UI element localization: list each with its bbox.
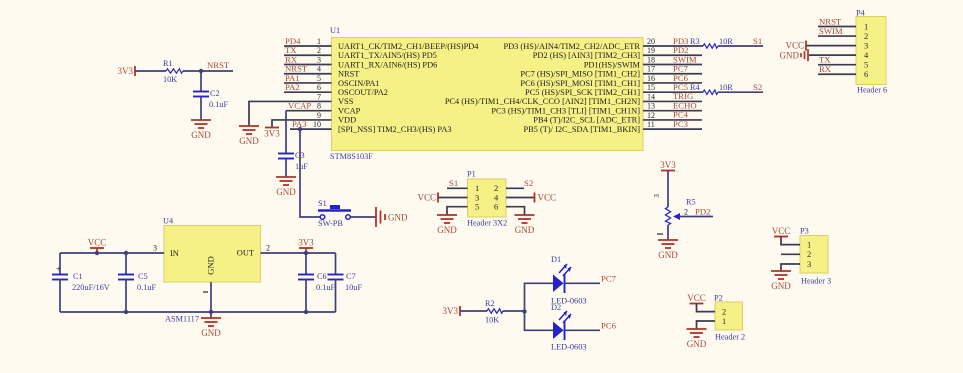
U1 pin 20	[503, 36, 703, 51]
svg-text:3V3: 3V3	[443, 306, 459, 316]
svg-text:Header 2: Header 2	[715, 333, 745, 342]
svg-text:R5: R5	[686, 198, 696, 207]
LED D2	[551, 303, 587, 352]
svg-text:VSS: VSS	[338, 97, 354, 106]
svg-text:PC6 (HS)/SPI_MOSI [TIM1_CH1]: PC6 (HS)/SPI_MOSI [TIM1_CH1]	[520, 79, 640, 88]
wire C5 branch	[125, 253, 127, 275]
svg-text:18: 18	[647, 55, 655, 64]
svg-text:3: 3	[652, 194, 661, 198]
svg-text:D2: D2	[551, 303, 561, 312]
wire S1 to P1 pin1	[447, 187, 468, 189]
wire R4 to S2	[718, 91, 763, 93]
wire S1 to ground	[351, 216, 377, 218]
svg-text:3V3: 3V3	[660, 160, 676, 170]
svg-text:6: 6	[864, 69, 868, 79]
svg-text:5: 5	[475, 202, 479, 212]
wire C7 to bottom rail	[335, 280, 337, 313]
svg-text:C5: C5	[138, 272, 148, 281]
svg-text:OSCOUT/PA2: OSCOUT/PA2	[338, 88, 388, 97]
wire VCC to P2 pin2	[697, 304, 716, 312]
svg-text:VCC: VCC	[785, 41, 804, 51]
C5 plates	[118, 275, 134, 280]
U1 pin 9	[317, 111, 356, 125]
resistor R2	[485, 299, 503, 325]
svg-text:16: 16	[647, 74, 655, 83]
ground (C3)	[276, 177, 296, 197]
connector P3 (Header 3)	[800, 227, 831, 286]
U4 pin 1 number	[203, 291, 208, 293]
node PA3 junction	[298, 127, 302, 131]
svg-text:GND: GND	[201, 328, 221, 338]
wire D1 to PC7	[565, 282, 601, 284]
wire P1 pin5 to ground	[447, 207, 468, 215]
svg-text:PD2: PD2	[695, 207, 710, 217]
U4 pin labels	[153, 244, 270, 275]
U1 pin 6	[284, 82, 388, 97]
svg-text:12: 12	[647, 111, 655, 120]
U1 pin 17	[520, 64, 702, 79]
ground (S1 switch)	[376, 207, 408, 227]
svg-text:10uF: 10uF	[345, 283, 362, 292]
power port 3V3 (R5)	[661, 170, 675, 172]
svg-text:ASM1117: ASM1117	[165, 315, 199, 324]
svg-text:P3: P3	[800, 227, 809, 236]
ground (P1 pin6)	[515, 215, 535, 235]
svg-text:3: 3	[807, 259, 811, 269]
wire 3V3 lead	[305, 248, 307, 253]
svg-text:5: 5	[317, 74, 321, 83]
svg-text:R4: R4	[690, 83, 701, 92]
svg-text:PC3: PC3	[673, 119, 688, 129]
power port VCC (P3)	[772, 226, 791, 237]
wire VCC to P3 pin1	[781, 237, 800, 245]
svg-text:PC7: PC7	[601, 274, 617, 284]
IC U1 (STM8S103F MCU)	[330, 26, 643, 161]
wire C7 branch	[335, 253, 337, 275]
svg-text:U4: U4	[163, 217, 174, 226]
ground (U4)	[201, 318, 221, 338]
wire RX to P4 pin6	[818, 73, 856, 75]
svg-text:5: 5	[864, 60, 868, 70]
svg-text:UART1_RX/AIN6/(HS) PD6: UART1_RX/AIN6/(HS) PD6	[338, 60, 437, 69]
capacitor C7	[328, 272, 363, 292]
svg-text:STM8S103F: STM8S103F	[330, 152, 373, 161]
svg-text:S1: S1	[753, 36, 762, 46]
C6 plates	[298, 275, 314, 280]
svg-text:0.1uF: 0.1uF	[137, 283, 157, 292]
power port VCC (P4 pin3)	[785, 41, 806, 51]
U1 pin 10	[290, 119, 452, 134]
svg-text:D1: D1	[551, 255, 561, 264]
svg-text:PC3 (HS)/TIM1_CH3 [TLI] [TIM1_: PC3 (HS)/TIM1_CH3 [TLI] [TIM1_CH1N]	[491, 106, 640, 115]
wire P1 pin4 to VCC	[506, 197, 535, 199]
U1 pin 18	[584, 54, 702, 69]
svg-text:PA2: PA2	[285, 82, 300, 92]
svg-text:20: 20	[647, 37, 655, 46]
svg-text:3V3: 3V3	[298, 238, 314, 248]
LED D1	[551, 255, 587, 306]
svg-text:2: 2	[684, 208, 688, 217]
wire input rail	[60, 252, 164, 254]
svg-text:GND: GND	[658, 250, 678, 260]
svg-text:8: 8	[317, 102, 321, 111]
capacitor C2	[193, 89, 229, 109]
power port 3V3 (U4 output)	[298, 238, 314, 249]
svg-text:11: 11	[647, 120, 655, 129]
svg-text:PB5 (T)/ I2C_SDA [TIM1_BKIN]: PB5 (T)/ I2C_SDA [TIM1_BKIN]	[523, 125, 640, 134]
svg-text:PD2 (HS) [AIN3] [TIM2_CH3]: PD2 (HS) [AIN3] [TIM2_CH3]	[533, 51, 640, 60]
svg-text:PD3 (HS)/AIN4/TIM2_CH2/ADC_ETR: PD3 (HS)/AIN4/TIM2_CH2/ADC_ETR	[503, 42, 640, 51]
svg-text:4: 4	[317, 65, 321, 74]
svg-text:NRST: NRST	[338, 70, 359, 79]
svg-text:NRST: NRST	[819, 16, 842, 26]
svg-text:PC6: PC6	[601, 321, 617, 331]
svg-text:6: 6	[317, 83, 321, 92]
wire P1 pin2 to S2	[506, 187, 524, 189]
svg-text:3V3: 3V3	[264, 129, 280, 139]
svg-text:UART1_CK/TIM2_CH1/BEEP/(HS)PD4: UART1_CK/TIM2_CH1/BEEP/(HS)PD4	[338, 42, 479, 51]
svg-text:RX: RX	[819, 64, 832, 74]
wire 3V3 to R5	[667, 171, 669, 208]
ground (P4 pin4)	[780, 49, 809, 61]
resistor R4	[690, 83, 733, 94]
wire U4 GND pin	[210, 282, 212, 318]
wire R2 to LED junction	[503, 310, 525, 312]
wire P3 pin2 stub	[781, 253, 800, 255]
power port 3V3 (R2)	[443, 306, 461, 316]
C3 plates	[278, 154, 294, 159]
U1 pin 1	[284, 36, 479, 51]
wire PA3 to switch S1	[300, 129, 320, 217]
svg-text:R3: R3	[690, 37, 700, 46]
svg-text:S2: S2	[524, 178, 533, 188]
svg-text:GND: GND	[276, 187, 296, 197]
svg-text:PC4 (HS)/TIM1_CH4/CLK_CCO [AIN: PC4 (HS)/TIM1_CH4/CLK_CCO [AIN2] [TIM1_C…	[445, 97, 640, 106]
ground (R5)	[658, 240, 678, 260]
svg-text:GND: GND	[206, 256, 216, 275]
svg-text:19: 19	[647, 46, 655, 55]
U1 pin 16	[520, 73, 702, 88]
capacitor C1	[52, 265, 110, 293]
svg-text:VCC: VCC	[538, 193, 557, 203]
svg-text:9: 9	[317, 111, 321, 120]
svg-text:GND: GND	[191, 130, 211, 140]
C2 plates	[193, 92, 209, 97]
ground (P3)	[771, 271, 791, 291]
svg-text:17: 17	[647, 65, 655, 74]
wire 3V3 to R2	[460, 310, 487, 312]
resistor R3	[690, 37, 733, 48]
svg-text:VCC: VCC	[88, 238, 107, 248]
wire junction to D2	[525, 312, 554, 331]
U1 pin 2	[284, 45, 437, 60]
power port VCC (P2)	[687, 293, 706, 304]
svg-text:1: 1	[722, 316, 726, 326]
wire P1 pin6 to ground	[506, 207, 525, 215]
C1 plates	[52, 275, 68, 280]
svg-text:R2: R2	[485, 299, 495, 308]
capacitor C3	[278, 151, 308, 171]
wire C5 to bottom rail	[125, 280, 127, 313]
svg-text:GND: GND	[515, 225, 535, 235]
svg-text:OSCIN/PA1: OSCIN/PA1	[338, 79, 380, 88]
svg-text:VCAP: VCAP	[338, 106, 361, 115]
ground (P1 pin5)	[437, 215, 457, 235]
svg-text:NRST: NRST	[207, 60, 230, 70]
node GND junction	[209, 310, 213, 314]
connector P2 (Header 2)	[714, 294, 745, 342]
svg-text:LED-0603: LED-0603	[551, 343, 587, 352]
wire 3V3 to R1	[135, 70, 166, 72]
U1 pin 7	[317, 92, 354, 106]
resistor R1	[163, 59, 183, 84]
svg-text:IN: IN	[170, 249, 179, 258]
wire C2 to ground	[200, 97, 202, 121]
R5 pin 1 number	[657, 233, 663, 235]
svg-text:Header 6: Header 6	[857, 86, 887, 95]
svg-text:10K: 10K	[163, 75, 177, 84]
svg-text:[SPI_NSS] TIM2_CH3/(HS) PA3: [SPI_NSS] TIM2_CH3/(HS) PA3	[338, 125, 452, 134]
svg-text:2: 2	[266, 244, 270, 253]
svg-text:C2: C2	[210, 89, 220, 98]
wire bottom rail	[60, 311, 336, 313]
svg-text:SWIM: SWIM	[819, 26, 843, 36]
svg-text:TX: TX	[819, 55, 831, 65]
wire junction to D1	[525, 283, 554, 311]
svg-text:GND: GND	[780, 51, 800, 61]
wire P3 pin3 to ground	[781, 264, 800, 271]
wire pin7 VSS to ground	[249, 101, 332, 126]
capacitor C6	[298, 272, 336, 292]
svg-text:VCC: VCC	[417, 193, 436, 203]
svg-text:PB4 (T)/I2C_SCL [ADC_ETR]: PB4 (T)/I2C_SCL [ADC_ETR]	[533, 116, 640, 125]
wire C1 branch	[59, 253, 61, 275]
U1 pin 4	[284, 64, 359, 79]
svg-text:3: 3	[153, 244, 157, 253]
svg-text:P1: P1	[467, 170, 476, 179]
wire C1 to bottom rail	[59, 280, 61, 313]
svg-text:10R: 10R	[719, 83, 733, 92]
svg-text:10K: 10K	[485, 316, 499, 325]
svg-text:R1: R1	[163, 59, 173, 68]
svg-text:C7: C7	[346, 272, 356, 281]
connector P4 (Header 6)	[856, 9, 887, 95]
wire SWIM to P4 pin2	[818, 35, 856, 37]
svg-text:1: 1	[807, 239, 811, 249]
wire D2 to PC6	[565, 329, 601, 331]
svg-text:C6: C6	[317, 272, 327, 281]
svg-text:S1: S1	[318, 199, 327, 208]
svg-text:1: 1	[864, 21, 868, 31]
svg-text:14: 14	[647, 92, 655, 101]
U1 pin 13	[491, 100, 702, 115]
wire R3 to S1	[718, 45, 763, 47]
svg-text:S2: S2	[753, 82, 762, 92]
svg-text:GND: GND	[687, 339, 707, 349]
power port VCC (P1 pin4)	[535, 193, 557, 203]
svg-text:1: 1	[317, 37, 321, 46]
svg-text:10: 10	[313, 120, 321, 129]
svg-text:Header 3X2: Header 3X2	[467, 219, 507, 228]
C7 plates	[328, 275, 344, 280]
svg-text:3: 3	[864, 40, 868, 50]
svg-text:3V3: 3V3	[118, 66, 134, 76]
node 3V3 junction	[304, 251, 308, 255]
U1 pin 14	[445, 91, 702, 106]
P1 pins 3/4	[475, 192, 499, 202]
U1 pin 5	[284, 73, 380, 88]
svg-text:Header 3: Header 3	[801, 277, 831, 286]
svg-text:GND: GND	[388, 213, 408, 223]
U1 pin 15	[525, 82, 703, 97]
svg-text:OUT: OUT	[237, 249, 254, 258]
svg-text:0.1uF: 0.1uF	[209, 100, 229, 109]
connector P1 (Header 3X2)	[467, 170, 507, 228]
wire C3 to ground	[285, 159, 287, 178]
svg-text:13: 13	[647, 102, 655, 111]
svg-text:U1: U1	[330, 26, 340, 35]
svg-text:PC7 (HS)/SPI_MISO [TIM1_CH2]: PC7 (HS)/SPI_MISO [TIM1_CH2]	[520, 70, 640, 79]
node NRST	[199, 60, 230, 73]
wire R1 to node NRST	[183, 70, 233, 72]
node C5 bottom junction	[124, 310, 128, 314]
U1 pin 3	[284, 54, 437, 69]
svg-text:GND: GND	[437, 225, 457, 235]
capacitor C5	[118, 272, 157, 292]
svg-text:220uF/16V: 220uF/16V	[72, 283, 110, 292]
svg-text:2: 2	[807, 249, 811, 259]
power port VCC (U4 input)	[88, 238, 107, 249]
power port VCC (P1 pin3)	[417, 193, 438, 203]
svg-text:6: 6	[494, 202, 498, 212]
svg-text:2: 2	[317, 46, 321, 55]
svg-text:PD1(HS)/SWIM: PD1(HS)/SWIM	[584, 60, 641, 69]
wire P2 pin1 to ground	[697, 321, 716, 329]
ground (VSS pin7)	[239, 126, 259, 146]
svg-text:GND: GND	[771, 281, 791, 291]
P1 pins 5/6	[475, 202, 498, 212]
node LED junction	[522, 309, 526, 313]
wire TX to P4 pin5	[818, 64, 856, 66]
wire ground to P4 pin4	[809, 54, 856, 56]
svg-text:S1: S1	[449, 178, 458, 188]
wire VCC lead	[96, 248, 98, 253]
wire C6 branch	[305, 253, 307, 275]
wire node to C2	[200, 71, 202, 92]
P1 pins 1/2	[475, 183, 498, 193]
U1 pin 8	[286, 100, 361, 115]
power port 3V3 (R1 pull-up)	[118, 66, 136, 76]
svg-text:VDD: VDD	[338, 116, 356, 125]
wire VCC to P1 pin3	[438, 197, 468, 199]
power port 3V3 (VDD pin9)	[264, 128, 280, 139]
node VCC junction	[95, 251, 99, 255]
svg-text:VCC: VCC	[687, 293, 706, 303]
node C5 top junction	[124, 251, 128, 255]
ground (C2)	[191, 120, 211, 140]
svg-text:10R: 10R	[719, 37, 733, 46]
wire VCC to P4 pin3	[806, 45, 856, 47]
svg-text:+: +	[56, 265, 61, 274]
wire VCAP to C3	[285, 111, 287, 154]
wire NRST to P4 pin1	[818, 26, 856, 28]
wire pin9 VDD to 3V3	[272, 120, 332, 127]
switch S1 (SW-PB)	[318, 199, 351, 228]
svg-text:GND: GND	[239, 136, 259, 146]
U1 pin 19	[533, 45, 702, 60]
svg-text:2: 2	[864, 31, 868, 41]
svg-text:0.1uF: 0.1uF	[316, 283, 336, 292]
svg-text:1uF: 1uF	[295, 162, 308, 171]
voltage regulator U4 (ASM1117)	[163, 217, 261, 324]
svg-text:PC5 (HS)/SPI_SCK [TIM2_CH1]: PC5 (HS)/SPI_SCK [TIM2_CH1]	[525, 88, 640, 97]
svg-text:15: 15	[647, 83, 655, 92]
potentiometer R5	[652, 194, 713, 225]
svg-text:3: 3	[317, 55, 321, 64]
svg-text:SW-PB: SW-PB	[318, 219, 343, 228]
svg-text:UART1_TX/AIN5/(HS) PD5: UART1_TX/AIN5/(HS) PD5	[338, 51, 437, 60]
ground (P2)	[687, 329, 707, 349]
node C6 bottom junction	[304, 310, 308, 314]
U1 pin 11	[523, 119, 702, 134]
wire output rail	[261, 252, 336, 254]
wire R5 to ground	[667, 225, 669, 240]
svg-text:C1: C1	[73, 272, 83, 281]
svg-text:P2: P2	[714, 294, 723, 303]
U1 pin 12	[533, 110, 702, 125]
svg-text:VCC: VCC	[772, 226, 791, 236]
svg-text:7: 7	[317, 92, 321, 101]
wire C6 to bottom rail	[305, 280, 307, 313]
